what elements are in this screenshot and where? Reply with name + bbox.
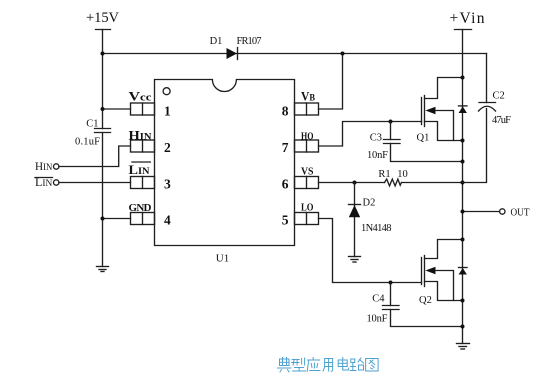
diode D2 bbox=[349, 183, 361, 257]
svg-text:HO: HO bbox=[301, 131, 314, 143]
capacitor C4 bbox=[383, 283, 463, 327]
svg-text:2: 2 bbox=[164, 140, 171, 155]
svg-text:1: 1 bbox=[164, 104, 171, 119]
node VB / rail junction bbox=[341, 52, 345, 56]
resistor R1 bbox=[385, 179, 402, 186]
wire GND pin to ground bbox=[103, 218, 131, 220]
wire R1 to VS node bbox=[402, 182, 463, 184]
wire HO to Q1 gate bbox=[319, 122, 422, 147]
svg-text:GND: GND bbox=[129, 202, 152, 214]
power +Vin bbox=[455, 30, 472, 344]
caption 典型应用电路图 bbox=[278, 358, 379, 373]
node GND junction bbox=[101, 217, 105, 221]
svg-text:FR107: FR107 bbox=[237, 36, 262, 47]
power +15V bbox=[96, 30, 111, 129]
svg-text:C1: C1 bbox=[86, 119, 98, 130]
svg-text:10nF: 10nF bbox=[367, 314, 388, 325]
terminal Hin bbox=[54, 146, 131, 169]
svg-text:D2: D2 bbox=[363, 198, 376, 209]
svg-text:8: 8 bbox=[282, 104, 289, 119]
diode D1 bbox=[227, 48, 238, 60]
svg-text:Q2: Q2 bbox=[419, 295, 432, 306]
svg-text:VS: VS bbox=[301, 166, 314, 178]
svg-text:C3: C3 bbox=[370, 133, 382, 144]
svg-text:5: 5 bbox=[282, 213, 289, 228]
svg-text:HIN: HIN bbox=[129, 128, 152, 143]
svg-text:D1: D1 bbox=[210, 36, 223, 47]
ground (left) bbox=[97, 267, 109, 272]
svg-text:6: 6 bbox=[282, 177, 289, 192]
pin 3 Lin box bbox=[131, 177, 155, 189]
node VS / D2 junction bbox=[353, 181, 357, 185]
svg-text:LIN: LIN bbox=[35, 177, 53, 189]
node HO / C3 junction bbox=[389, 120, 393, 124]
wire LO to Q2 gate bbox=[319, 219, 422, 283]
svg-text:47uF: 47uF bbox=[492, 115, 511, 126]
svg-text:Q1: Q1 bbox=[417, 133, 430, 144]
svg-text:1N4148: 1N4148 bbox=[361, 223, 392, 234]
op-amp U1 IC body bbox=[155, 80, 295, 246]
transistor Q2 bbox=[422, 240, 463, 301]
pin 6 VS box bbox=[295, 177, 319, 189]
Lin terminal overline bbox=[35, 177, 53, 179]
wire Vcc to +15V rail bbox=[103, 108, 131, 110]
svg-text:0.1uF: 0.1uF bbox=[75, 137, 100, 148]
transistor Q1 bbox=[422, 78, 463, 141]
node Q2 drain junction bbox=[461, 238, 465, 242]
svg-text:C2: C2 bbox=[493, 91, 505, 102]
svg-text:10: 10 bbox=[397, 169, 408, 180]
node Q1 source junction bbox=[461, 139, 465, 143]
svg-text:10nF: 10nF bbox=[367, 150, 388, 161]
node C3 / VS rail junction bbox=[461, 160, 465, 164]
pin 4 GND box bbox=[131, 213, 155, 225]
node Vcc junction bbox=[101, 107, 105, 111]
terminal OUT bbox=[463, 209, 505, 214]
pin 1 Vcc box bbox=[131, 103, 155, 115]
svg-text:3: 3 bbox=[164, 177, 171, 192]
svg-text:R1: R1 bbox=[378, 169, 390, 180]
pin 3 Lin overline bbox=[132, 161, 150, 163]
pin 7 HO box bbox=[295, 140, 319, 152]
ground (D2) bbox=[349, 257, 361, 263]
svg-text:Vcc: Vcc bbox=[129, 89, 152, 104]
Q2 body diode bbox=[459, 268, 468, 275]
capacitor C2 bbox=[463, 54, 496, 183]
node R1 / rail junction bbox=[461, 181, 465, 185]
wire VB to top rail bbox=[319, 54, 343, 110]
svg-text:U1: U1 bbox=[216, 253, 229, 265]
capacitor C1 bbox=[95, 129, 111, 267]
node Q2 source junction bbox=[461, 299, 465, 303]
svg-text:+Vin: +Vin bbox=[450, 10, 485, 27]
svg-text:OUT: OUT bbox=[511, 207, 530, 219]
node C4 / rail junction bbox=[461, 325, 465, 329]
svg-text:VB: VB bbox=[301, 89, 316, 104]
svg-text:+15V: +15V bbox=[86, 10, 120, 26]
pin 8 VB box bbox=[295, 103, 319, 115]
svg-text:HIN: HIN bbox=[35, 161, 53, 173]
Q1 body diode bbox=[459, 106, 468, 113]
node LO / C4 junction bbox=[389, 281, 393, 285]
node Q1 drain junction bbox=[461, 76, 465, 80]
capacitor C3 bbox=[384, 122, 463, 162]
svg-text:4: 4 bbox=[164, 213, 171, 228]
svg-text:C4: C4 bbox=[372, 294, 385, 305]
terminal Lin bbox=[54, 180, 131, 185]
svg-text:LIN: LIN bbox=[129, 162, 150, 177]
svg-text:LO: LO bbox=[301, 202, 314, 214]
node OUT junction bbox=[461, 210, 465, 214]
wire top rail bbox=[103, 53, 487, 55]
node: +15V / top rail junction bbox=[101, 52, 105, 56]
svg-text:7: 7 bbox=[282, 140, 289, 155]
wire VS to R1 bbox=[319, 182, 385, 184]
pin 5 LO box bbox=[295, 213, 319, 225]
ground (right) bbox=[457, 344, 470, 350]
pin 2 Hin box bbox=[131, 140, 155, 152]
